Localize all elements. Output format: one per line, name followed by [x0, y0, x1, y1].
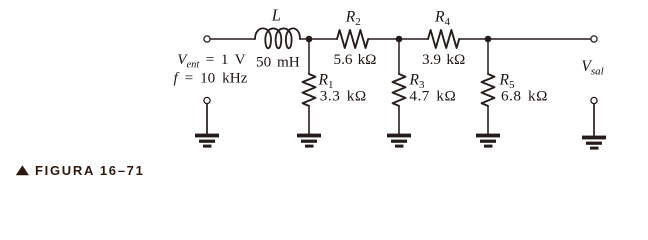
ground: input side: [195, 134, 219, 148]
terminal: input top: [204, 36, 210, 42]
wire: R5 to ground: [487, 106, 489, 134]
wire: R2 to R4: [368, 38, 428, 40]
resistor R3: [393, 74, 406, 106]
svg-text:R2: R2: [345, 8, 361, 28]
resistor R2: [337, 30, 368, 48]
wire: R3 to ground: [398, 106, 400, 134]
wire: input to inductor: [210, 38, 255, 40]
wire: node C down to R5: [487, 39, 489, 74]
ground: output side: [582, 136, 606, 150]
terminal: output top: [591, 36, 597, 42]
wire: inductor to R2: [300, 38, 337, 40]
svg-text:FIGURA 16–71: FIGURA 16–71: [35, 163, 145, 178]
svg-text:L: L: [271, 5, 281, 24]
wire: node A down to R1: [308, 39, 310, 74]
node B junction dot: [396, 36, 403, 43]
ground: under R1: [297, 134, 321, 148]
wire: output bottom terminal to ground: [593, 104, 595, 136]
resistor R1: [303, 74, 316, 106]
wire: node B down to R3: [398, 39, 400, 74]
svg-text:R4: R4: [434, 8, 450, 28]
wire: R4 to output terminal: [459, 38, 590, 40]
svg-text:3.9 kΩ: 3.9 kΩ: [422, 51, 465, 68]
wire: input bottom terminal to ground: [206, 104, 208, 134]
ground: under R5: [476, 134, 500, 148]
inductor L: [255, 28, 300, 48]
resistor R5: [482, 74, 495, 106]
svg-text:3.3 kΩ: 3.3 kΩ: [320, 88, 367, 105]
svg-text:6.8 kΩ: 6.8 kΩ: [501, 88, 548, 105]
terminal: output bottom: [591, 97, 597, 103]
node A junction dot: [306, 36, 313, 43]
svg-text:4.7 kΩ: 4.7 kΩ: [409, 88, 456, 105]
terminal: input bottom: [204, 97, 210, 103]
wire: R1 to ground: [308, 106, 310, 134]
svg-text:5.6 kΩ: 5.6 kΩ: [334, 51, 377, 68]
svg-text:50 mH: 50 mH: [256, 53, 300, 70]
figure caption FIGURA 16-71: [16, 163, 145, 178]
svg-text:Vent = 1 V: Vent = 1 V: [177, 51, 245, 71]
resistor R4: [428, 30, 459, 48]
svg-text:Vsal: Vsal: [581, 58, 603, 78]
node C junction dot: [485, 36, 492, 43]
ground: under R3: [387, 134, 411, 148]
svg-text:f = 10 kHz: f = 10 kHz: [174, 69, 248, 86]
